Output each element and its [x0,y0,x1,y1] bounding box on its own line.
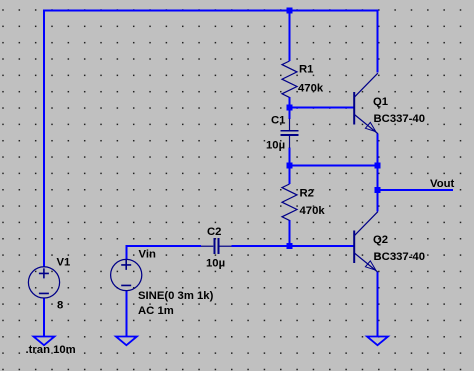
svg-text:8: 8 [57,300,63,312]
svg-text:10µ: 10µ [206,258,225,270]
svg-text:470k: 470k [298,83,324,95]
svg-text:AC 1m: AC 1m [138,305,174,317]
svg-text:C2: C2 [207,226,221,238]
svg-text:10µ: 10µ [266,140,285,152]
svg-text:.tran 10m: .tran 10m [26,344,76,356]
svg-text:Vout: Vout [430,178,454,190]
svg-text:Vin: Vin [139,249,156,261]
svg-text:V1: V1 [57,257,71,269]
svg-text:470k: 470k [300,205,326,217]
svg-text:Q2: Q2 [373,234,388,246]
svg-text:Q1: Q1 [373,96,388,108]
svg-text:C1: C1 [271,115,285,127]
svg-text:R2: R2 [300,188,314,200]
svg-text:BC337-40: BC337-40 [374,113,426,125]
svg-text:SINE(0 3m 1k): SINE(0 3m 1k) [138,290,214,302]
svg-text:R1: R1 [299,64,313,76]
svg-text:BC337-40: BC337-40 [374,251,426,263]
